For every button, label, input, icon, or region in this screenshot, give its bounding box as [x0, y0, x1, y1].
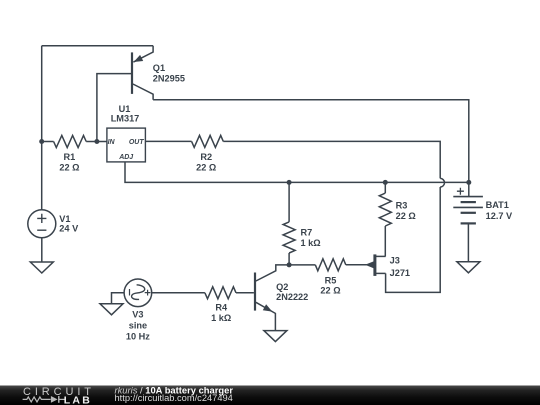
svg-text:V3: V3: [132, 310, 143, 320]
resistor R5: [289, 264, 315, 266]
node B junction IN: [94, 139, 99, 144]
svg-text:BAT1: BAT1: [486, 200, 509, 210]
voltage source V1 minus: [37, 229, 46, 231]
ground BAT1: [457, 262, 480, 273]
voltage source V1 plus: [37, 214, 46, 223]
svg-text:2N2955: 2N2955: [153, 74, 185, 84]
wire Q1 collector rail: [153, 100, 469, 183]
svg-text:22 Ω: 22 Ω: [196, 162, 216, 172]
transistor J3 gate wire: [346, 264, 374, 266]
resistor R4: [205, 287, 236, 299]
wire IN lead: [97, 141, 107, 143]
transistor J3 source lead: [376, 272, 386, 274]
wire +24V top rail: [42, 45, 153, 47]
resistor R2: [192, 135, 224, 147]
svg-text:Q2: Q2: [276, 282, 288, 292]
transistor J3 gate arrow (P-JFET): [365, 261, 374, 268]
ground V3: [100, 304, 123, 315]
wire ADJ lead: [125, 162, 469, 183]
svg-text:U1: U1: [119, 104, 131, 114]
svg-text:1 kΩ: 1 kΩ: [211, 313, 231, 323]
resistor R1: [42, 141, 54, 143]
battery BAT1 plate 1 long: [453, 196, 483, 198]
svg-text:http://circuitlab.com/c247494: http://circuitlab.com/c247494: [115, 393, 233, 403]
transistor J3 drain lead: [376, 255, 386, 257]
battery BAT1 plate 2 short: [461, 201, 476, 203]
node C junction R7 top: [287, 180, 292, 185]
transistor J3 channel bar: [373, 254, 376, 276]
svg-text:R7: R7: [301, 227, 313, 237]
logo resistor zigzag: [23, 397, 51, 402]
battery BAT1 bottom plate: [461, 222, 476, 224]
voltage source V3 circle: [124, 279, 152, 307]
transistor Q1 emitter arrow (PNP): [134, 55, 144, 62]
voltage source V1 circle: [28, 210, 56, 238]
footer bar: [0, 386, 540, 405]
svg-text:2N2222: 2N2222: [276, 292, 308, 302]
wire Q2 collector: [256, 265, 289, 281]
svg-text:J3: J3: [390, 255, 400, 265]
transistor Q1 collector lead: [133, 84, 153, 100]
svg-text:R2: R2: [200, 152, 212, 162]
wire OUT down to J3 source: [386, 187, 441, 292]
node E junction battery plus: [466, 180, 471, 185]
transistor Q2 base bar: [254, 273, 256, 311]
resistor R3: [384, 182, 386, 193]
wire hop over ADJ rail: [440, 178, 444, 187]
transistor Q1 emitter lead: [133, 46, 153, 62]
svg-text:R3: R3: [396, 200, 408, 210]
wire V1 to ground: [41, 238, 43, 262]
transistor Q2 emitter arrow (NPN): [263, 304, 273, 311]
svg-text:OUT: OUT: [129, 139, 145, 146]
svg-text:sine: sine: [129, 321, 147, 331]
battery BAT1 plate 3 long: [453, 206, 483, 208]
transistor Q1 base bar: [131, 52, 133, 94]
battery BAT1 plus sign: [457, 188, 464, 195]
ground Q2 emitter: [264, 331, 287, 342]
svg-text:R1: R1: [64, 152, 76, 162]
svg-text:1 kΩ: 1 kΩ: [301, 238, 321, 248]
svg-text:22 Ω: 22 Ω: [59, 162, 79, 172]
logo diode: [51, 396, 58, 403]
svg-text:IN: IN: [108, 139, 116, 146]
voltage source V3 plus sign: [145, 290, 151, 296]
svg-text:ADJ: ADJ: [118, 154, 134, 161]
svg-text:Q1: Q1: [153, 63, 165, 73]
resistor R7: [288, 182, 290, 222]
svg-text:LAB: LAB: [64, 394, 92, 405]
svg-text:22 Ω: 22 Ω: [396, 211, 416, 221]
battery BAT1 top lead: [468, 182, 470, 196]
voltage source V3 minus tick: [129, 289, 131, 296]
wire +24V left vertical: [41, 46, 43, 210]
svg-text:10 Hz: 10 Hz: [126, 332, 150, 342]
svg-text:22 Ω: 22 Ω: [320, 286, 340, 296]
svg-text:R4: R4: [215, 303, 228, 313]
transistor Q2 emitter lead: [256, 302, 276, 330]
battery BAT1 bottom lead: [467, 223, 469, 261]
op-amp U1 LM317 box: [107, 128, 145, 162]
svg-text:V1: V1: [59, 214, 70, 224]
wire OUT lead: [145, 140, 191, 142]
wire Q1 base to IN node: [97, 74, 131, 142]
node D junction R3 top: [383, 180, 388, 185]
wire V3 to R4: [152, 292, 205, 294]
node F junction Q2 collector: [287, 262, 292, 267]
svg-text:J271: J271: [390, 268, 410, 278]
ground V1: [30, 262, 53, 273]
voltage source V3 sine glyph: [132, 285, 145, 300]
svg-text:LM317: LM317: [111, 114, 140, 124]
svg-text:24 V: 24 V: [59, 224, 79, 234]
node A junction R1 left: [39, 139, 44, 144]
svg-text:12.7 V: 12.7 V: [486, 211, 513, 221]
battery BAT1 plate 4 short: [461, 212, 476, 214]
wire OUT rail right: [223, 141, 440, 178]
svg-text:R5: R5: [325, 275, 337, 285]
wire V3 negative to ground: [112, 293, 125, 304]
